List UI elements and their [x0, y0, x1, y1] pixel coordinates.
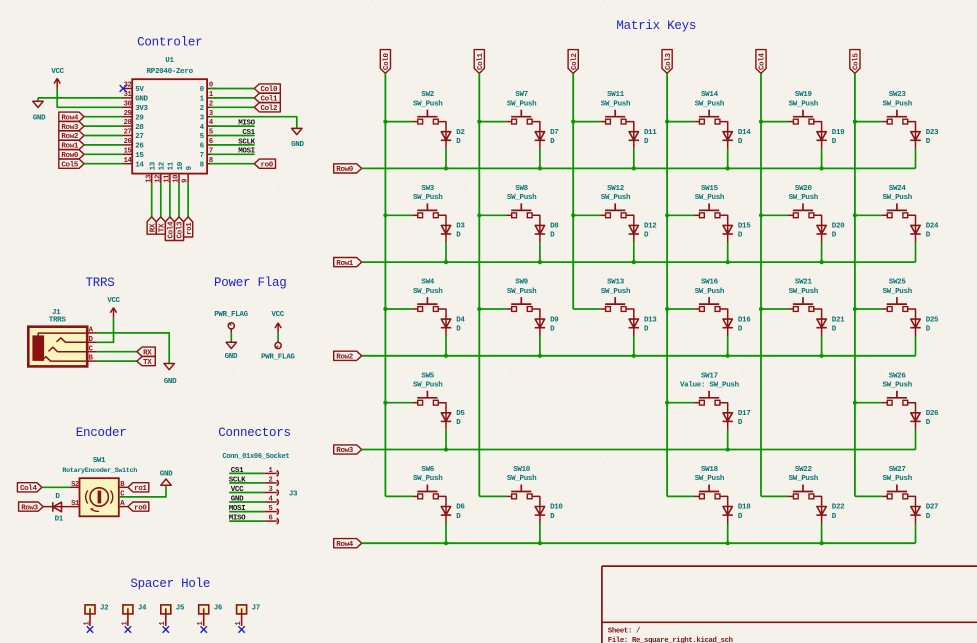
- wire GND to U1 pin 31: [38, 97, 123, 99]
- wire D24 to Row1: [915, 242, 917, 262]
- svg-text:3V3: 3V3: [135, 105, 148, 113]
- hierarchical label TX (controller bottom): [156, 217, 165, 234]
- svg-text:15: 15: [124, 147, 132, 155]
- svg-text:D10: D10: [550, 504, 563, 512]
- junction col4 SW20: [759, 213, 763, 217]
- switch SW16: [699, 303, 719, 305]
- junction col1 SW7: [477, 120, 481, 124]
- U1 left pin 26 (26): [123, 144, 133, 146]
- wire SW26 to D26: [908, 403, 916, 422]
- svg-text:SW14: SW14: [701, 91, 719, 99]
- svg-text:SW23: SW23: [889, 91, 907, 99]
- junction D8 Row1: [538, 260, 542, 264]
- svg-text:SW_Push: SW_Push: [882, 382, 912, 390]
- U1 left pin 28 (28): [123, 125, 133, 127]
- spacer hole connector J5: [161, 605, 171, 614]
- wire SW3 to D3: [438, 215, 446, 234]
- svg-text:Col3: Col3: [665, 53, 673, 70]
- wire PWR_FLAG to GND: [230, 333, 232, 340]
- svg-text:SW_Push: SW_Push: [507, 100, 537, 108]
- svg-text:File: Re_square_right.kicad_sc: File: Re_square_right.kicad_sch: [608, 637, 733, 643]
- diode D18: [723, 507, 732, 515]
- power symbol GND (power flag): [230, 340, 232, 342]
- J1 pin B: [87, 360, 97, 362]
- U1 right pin 4: [207, 125, 217, 127]
- svg-text:Conn_01x06_Socket: Conn_01x06_Socket: [222, 453, 289, 461]
- diode D8: [535, 225, 544, 233]
- wire D5 to Row3: [445, 430, 447, 450]
- svg-text:MOSI: MOSI: [229, 505, 246, 513]
- svg-text:Spacer Hole: Spacer Hole: [130, 577, 210, 591]
- svg-text:D24: D24: [926, 223, 939, 231]
- wire D15 to Row1: [727, 242, 729, 262]
- svg-text:D18: D18: [738, 504, 751, 512]
- wire J3 pin 5 net MOSI: [229, 511, 264, 513]
- svg-text:MISO: MISO: [229, 515, 246, 523]
- wire col5 to SW23: [855, 121, 882, 123]
- wire D4 to Row2: [445, 336, 447, 356]
- svg-text:VCC: VCC: [51, 68, 64, 76]
- wire D21 to Row2: [821, 336, 823, 356]
- J1 contact B: [42, 357, 87, 362]
- junction D17 Row3: [726, 447, 730, 451]
- hierarchical label Col4 (controller bottom): [165, 217, 174, 241]
- spacer hole connector J7: [237, 605, 247, 614]
- diode D25: [911, 319, 920, 327]
- svg-text:SW1: SW1: [93, 457, 106, 465]
- svg-text:SW_Push: SW_Push: [413, 288, 443, 296]
- hierarchical label Row2 (matrix): [334, 351, 362, 360]
- svg-text:9: 9: [182, 179, 190, 183]
- svg-text:J4: J4: [138, 605, 147, 613]
- wire col5 to SW26: [855, 402, 882, 404]
- wire U1 pin 3 to GND: [210, 117, 297, 129]
- wire D9 to Row2: [539, 336, 541, 356]
- svg-text:MOSI: MOSI: [238, 148, 255, 156]
- U1 right pin 7: [207, 153, 217, 155]
- U1 bottom pin 13: [151, 174, 153, 184]
- diode D23: [911, 132, 920, 140]
- diode D15: [723, 225, 732, 233]
- svg-text:5: 5: [268, 505, 272, 513]
- svg-text:Row0: Row0: [336, 166, 353, 174]
- U1 left pin 31 (GND): [123, 97, 133, 99]
- wire Row1 to U1: [84, 144, 122, 146]
- svg-text:29: 29: [135, 114, 144, 122]
- switch SW12: [605, 209, 625, 211]
- power flag PWR_FLAG #2: [277, 340, 279, 343]
- U1 right pin 1: [207, 97, 217, 99]
- U1 body: [132, 79, 207, 173]
- U1 bottom pin 11: [169, 174, 171, 184]
- wire col5 to SW24: [855, 214, 882, 216]
- junction D22 Row4: [820, 541, 824, 545]
- diode D6: [441, 507, 450, 515]
- wire D18 to Row4: [727, 524, 729, 544]
- J1 pin C: [87, 351, 97, 353]
- svg-text:SW8: SW8: [515, 185, 528, 193]
- switch SW19: [793, 116, 813, 118]
- J1 pin D: [87, 341, 97, 343]
- svg-text:1: 1: [159, 622, 167, 626]
- wire SW12 to D12: [626, 215, 634, 234]
- wire D8 to Row1: [539, 242, 541, 262]
- svg-text:5V: 5V: [135, 86, 144, 94]
- svg-text:6: 6: [268, 515, 272, 523]
- SW1 pin S2: [70, 486, 80, 488]
- diode D4: [441, 319, 450, 327]
- svg-text:Col2: Col2: [261, 105, 278, 113]
- wire SW21 to D21: [814, 309, 822, 328]
- svg-text:D20: D20: [832, 223, 845, 231]
- svg-text:SW25: SW25: [889, 279, 907, 287]
- hierarchical label Col3 (matrix): [662, 50, 672, 74]
- U1 left pin 30 (3V3): [123, 106, 133, 108]
- wire D27 to Row4: [915, 524, 917, 544]
- diode D22: [817, 507, 826, 515]
- svg-text:SW5: SW5: [421, 372, 434, 380]
- svg-text:SW20: SW20: [795, 185, 813, 193]
- wire column Col1 vertical: [478, 73, 480, 496]
- svg-text:SW_Push: SW_Push: [507, 475, 537, 483]
- wire row Row3 horizontal: [362, 449, 916, 451]
- svg-text:Col5: Col5: [853, 53, 861, 70]
- svg-text:30: 30: [124, 100, 132, 108]
- svg-text:1: 1: [235, 622, 243, 626]
- switch SW10: [511, 491, 531, 493]
- junction D7 Row0: [538, 166, 542, 170]
- svg-text:J7: J7: [252, 605, 260, 613]
- svg-text:28: 28: [124, 119, 132, 127]
- hierarchical label RX (controller bottom): [147, 217, 156, 234]
- junction D20 Row1: [820, 260, 824, 264]
- wire col1 to SW8: [479, 214, 506, 216]
- wire SW24 to D24: [908, 215, 916, 234]
- svg-text:2: 2: [268, 476, 272, 484]
- junction D4 Row2: [444, 354, 448, 358]
- junction col4 SW19: [759, 120, 763, 124]
- wire SW5 to D5: [438, 403, 446, 422]
- diode D26: [911, 413, 920, 421]
- hierarchical label Col2 (matrix): [568, 50, 578, 74]
- J3 pin 1: [264, 472, 277, 474]
- wire Row2 to U1: [84, 135, 122, 137]
- svg-text:SW11: SW11: [607, 91, 625, 99]
- svg-text:10: 10: [173, 175, 181, 183]
- hierarchical label Row1 (matrix): [334, 258, 362, 267]
- wire D6 to Row4: [445, 524, 447, 544]
- junction col0 SW3: [383, 213, 387, 217]
- svg-text:SW_Push: SW_Push: [413, 100, 443, 108]
- junction col5 SW25: [853, 307, 857, 311]
- svg-text:26: 26: [124, 138, 132, 146]
- wire U1 pin 6 net SCLK: [210, 144, 255, 146]
- svg-text:D16: D16: [738, 316, 751, 324]
- svg-text:SW_Push: SW_Push: [413, 475, 443, 483]
- junction D2 Row0: [444, 166, 448, 170]
- no-connect X on J2: [87, 626, 93, 632]
- hierarchical label Col5 (matrix): [850, 50, 860, 74]
- svg-text:TRRS: TRRS: [49, 317, 67, 325]
- wire SW16 to D16: [720, 309, 728, 328]
- wire col1 to SW7: [479, 121, 506, 123]
- svg-text:SW17: SW17: [701, 372, 718, 380]
- svg-text:SW_Push: SW_Push: [507, 288, 537, 296]
- hierarchical label Col3 (controller bottom): [174, 217, 183, 241]
- svg-text:D4: D4: [456, 316, 465, 324]
- svg-text:S1: S1: [71, 500, 80, 508]
- J3 pin 6: [264, 520, 277, 522]
- switch SW23: [887, 116, 907, 118]
- svg-text:SW6: SW6: [421, 466, 434, 474]
- junction D5 Row3: [444, 447, 448, 451]
- hierarchical label RX: [137, 347, 155, 356]
- wire col3 to SW18: [667, 495, 694, 497]
- svg-text:U1: U1: [165, 57, 174, 65]
- wire J3 pin 6 net MISO: [229, 520, 264, 522]
- svg-text:Matrix Keys: Matrix Keys: [616, 19, 696, 33]
- wire col0 to SW6: [385, 495, 412, 497]
- diode D14: [723, 132, 732, 140]
- junction D3 Row1: [444, 260, 448, 264]
- diode D7: [535, 132, 544, 140]
- J1 pin A: [87, 332, 97, 334]
- svg-text:D25: D25: [926, 316, 939, 324]
- wire col4 to SW22: [761, 495, 788, 497]
- wire col4 to SW20: [761, 214, 788, 216]
- svg-text:D6: D6: [456, 504, 465, 512]
- svg-text:Sheet: /: Sheet: /: [608, 628, 641, 636]
- switch SW2: [417, 116, 437, 118]
- svg-text:D15: D15: [738, 223, 751, 231]
- wire SW14 to D14: [720, 122, 728, 141]
- hierarchical label TX: [137, 357, 155, 366]
- wire VCC to J1 pin D: [97, 318, 114, 343]
- hierarchical label Row0 (controller): [59, 150, 84, 159]
- svg-text:12: 12: [154, 175, 162, 183]
- wire D16 to Row2: [727, 336, 729, 356]
- svg-text:GND: GND: [160, 471, 173, 479]
- junction D9 Row2: [538, 354, 542, 358]
- svg-text:Col4: Col4: [20, 485, 37, 493]
- svg-text:SW_Push: SW_Push: [789, 194, 819, 202]
- diode D3: [441, 225, 450, 233]
- svg-text:12: 12: [159, 161, 167, 170]
- svg-text:RP2040-Zero: RP2040-Zero: [147, 68, 194, 76]
- svg-text:32: 32: [124, 82, 132, 90]
- wire U1 bottom pin to ro1: [187, 183, 189, 217]
- junction col4 SW21: [759, 307, 763, 311]
- junction col3 SW16: [665, 307, 669, 311]
- svg-text:13: 13: [150, 161, 158, 170]
- junction col2 SW12: [571, 213, 575, 217]
- svg-text:ro1: ro1: [134, 485, 147, 493]
- svg-text:Value: SW_Push: Value: SW_Push: [680, 382, 740, 390]
- wire U1 bottom pin to Col3: [178, 183, 180, 217]
- junction D15 Row1: [726, 260, 730, 264]
- wire D26 to Row3: [915, 430, 917, 450]
- junction col5 SW23: [853, 120, 857, 124]
- junction D13 Row2: [632, 354, 636, 358]
- wire D7 to Row0: [539, 149, 541, 169]
- svg-text:S2: S2: [71, 481, 79, 489]
- svg-text:VCC: VCC: [231, 486, 244, 494]
- svg-text:TX: TX: [143, 359, 152, 367]
- power symbol GND (controller right): [292, 128, 302, 134]
- wire col1 to SW9: [479, 308, 506, 310]
- svg-text:ro0: ro0: [134, 504, 147, 512]
- wire col5 to SW25: [855, 308, 882, 310]
- U1 left pin 15 (15): [123, 153, 133, 155]
- wire U1 pin 7 net MOSI: [210, 153, 255, 155]
- wire SW1 C to GND: [119, 485, 166, 497]
- svg-text:SW_Push: SW_Push: [695, 194, 725, 202]
- wire SW15 to D15: [720, 215, 728, 234]
- wire column Col4 vertical: [760, 73, 762, 496]
- svg-text:SW_Push: SW_Push: [413, 382, 443, 390]
- junction col0 SW5: [383, 401, 387, 405]
- hierarchical label Row1 (controller): [59, 140, 84, 149]
- svg-text:SW_Push: SW_Push: [601, 194, 631, 202]
- svg-text:SW_Push: SW_Push: [882, 288, 912, 296]
- wire J3 pin 4 net GND: [229, 501, 264, 503]
- svg-text:SW_Push: SW_Push: [789, 288, 819, 296]
- svg-text:SW_Push: SW_Push: [789, 475, 819, 483]
- svg-text:1: 1: [83, 622, 91, 626]
- wire col5 to SW27: [855, 495, 882, 497]
- switch SW17: [699, 397, 719, 399]
- J3 pin 2: [264, 482, 277, 484]
- svg-text:D23: D23: [926, 129, 939, 137]
- wire row Row4 horizontal: [362, 542, 916, 544]
- svg-text:D8: D8: [550, 223, 559, 231]
- wire U1 bottom pin to TX: [160, 183, 162, 217]
- junction D18 Row4: [726, 541, 730, 545]
- svg-text:D27: D27: [926, 504, 938, 512]
- svg-text:SW3: SW3: [421, 185, 434, 193]
- svg-text:VCC: VCC: [107, 297, 120, 305]
- U1 left pin 14 (14): [123, 163, 133, 165]
- wire SW25 to D25: [908, 309, 916, 328]
- hierarchical label Row0 (matrix): [334, 164, 362, 173]
- svg-text:J5: J5: [176, 605, 185, 613]
- switch SW25: [887, 303, 907, 305]
- wire SW18 to D18: [720, 496, 728, 515]
- wire col3 to SW16: [667, 308, 694, 310]
- wire col3 to SW15: [667, 214, 694, 216]
- wire D25 to Row2: [915, 336, 917, 356]
- switch SW22: [793, 491, 813, 493]
- svg-text:MISO: MISO: [238, 120, 255, 128]
- U1 right pin 0: [207, 88, 217, 90]
- svg-text:SW24: SW24: [889, 185, 907, 193]
- SW1 pin B: [119, 486, 128, 488]
- wire col0 to SW4: [385, 308, 412, 310]
- wire J1 pin C to RX: [97, 351, 137, 353]
- svg-text:D21: D21: [832, 316, 845, 324]
- junction col5 SW24: [853, 213, 857, 217]
- wire Col4 to SW1 S2: [42, 486, 70, 488]
- junction col2 SW11: [571, 120, 575, 124]
- switch SW15: [699, 209, 719, 211]
- svg-text:D14: D14: [738, 129, 751, 137]
- hierarchical label ro1 (controller bottom): [184, 217, 193, 237]
- junction col3 SW15: [665, 213, 669, 217]
- svg-text:SW_Push: SW_Push: [789, 100, 819, 108]
- svg-text:J6: J6: [214, 605, 223, 613]
- diode D9: [535, 319, 544, 327]
- hierarchical label Col2 (controller): [254, 103, 280, 112]
- U1 right pin 5: [207, 135, 217, 137]
- wire U1 pin 0 to Col0: [210, 88, 254, 90]
- svg-text:31: 31: [124, 91, 133, 99]
- hierarchical label Col1 (controller): [254, 93, 280, 102]
- svg-text:Col1: Col1: [477, 53, 485, 70]
- wire D12 to Row1: [633, 242, 635, 262]
- power symbol GND (controller left): [37, 98, 39, 101]
- wire J3 pin 2 net SCLK: [229, 482, 264, 484]
- wire SW11 to D11: [626, 122, 634, 141]
- svg-text:SW13: SW13: [607, 279, 625, 287]
- svg-text:D7: D7: [550, 129, 558, 137]
- junction D16 Row2: [726, 354, 730, 358]
- svg-text:SCLK: SCLK: [229, 476, 246, 484]
- svg-text:Controler: Controler: [137, 36, 202, 50]
- svg-text:CS1: CS1: [242, 129, 255, 137]
- hierarchical label Col4 (encoder): [17, 483, 42, 492]
- svg-text:D2: D2: [456, 129, 465, 137]
- U1 left pin 32 (5V): [123, 88, 133, 90]
- svg-text:Col5: Col5: [61, 161, 78, 169]
- wire D11 to Row0: [633, 149, 635, 169]
- hierarchical label ro1 (encoder): [128, 483, 149, 492]
- svg-text:SW_Push: SW_Push: [695, 475, 725, 483]
- wire row Row2 horizontal: [362, 355, 916, 357]
- svg-text:13: 13: [145, 175, 153, 183]
- power symbol GND (encoder): [161, 479, 171, 485]
- switch SW18: [699, 491, 719, 493]
- sheet frame / title block: [601, 566, 603, 643]
- svg-text:D22: D22: [832, 504, 845, 512]
- svg-text:GND: GND: [291, 141, 304, 149]
- svg-text:RotaryEncoder_Switch: RotaryEncoder_Switch: [62, 467, 137, 475]
- wire SW10 to D10: [532, 496, 540, 515]
- svg-text:27: 27: [124, 129, 132, 137]
- U1 left pin 29 (29): [123, 116, 133, 118]
- svg-text:Col0: Col0: [383, 53, 391, 70]
- diode D12: [629, 225, 638, 233]
- U1 right pin 8: [207, 163, 217, 165]
- svg-text:SW_Push: SW_Push: [882, 194, 912, 202]
- wire SW19 to D19: [814, 122, 822, 141]
- junction D11 Row0: [632, 166, 636, 170]
- svg-text:11: 11: [164, 174, 172, 183]
- wire column Col5 vertical: [854, 73, 856, 496]
- hierarchical label Col1 (matrix): [474, 50, 484, 74]
- diode D20: [817, 225, 826, 233]
- diode D5: [441, 413, 450, 421]
- switch SW3: [417, 209, 437, 211]
- no-connect X on U1 pin 32: [120, 85, 127, 92]
- svg-text:D9: D9: [550, 316, 559, 324]
- svg-text:SW9: SW9: [515, 279, 528, 287]
- junction col0 SW4: [383, 307, 387, 311]
- svg-text:D17: D17: [738, 410, 750, 418]
- switch SW21: [793, 303, 813, 305]
- wire col2 to SW12: [573, 214, 600, 216]
- wire D19 to Row0: [821, 149, 823, 169]
- encoder SW1 body: [80, 478, 119, 516]
